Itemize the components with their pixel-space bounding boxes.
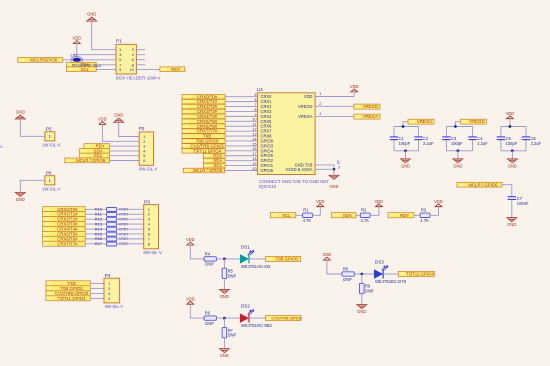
wire R8 to DS3: [354, 273, 374, 275]
wire to GND (C1 C2 VREGA decoupling): [405, 151, 407, 159]
net label RDY (U1 pin 17): [204, 153, 226, 158]
text R12 designator and value: [95, 216, 128, 221]
wire R11 to P3 pin 2: [117, 213, 144, 215]
wire DS2 to net label: [249, 317, 266, 319]
wire CRX0/T0# to R10: [85, 208, 106, 210]
resistor R8 DNP: [342, 272, 354, 276]
wire R14 to P3 pin 5: [117, 228, 144, 230]
junction DS3 node: [360, 273, 363, 276]
svg-text:VDD: VDD: [350, 84, 359, 89]
wire U1 GND TAB pin21: [315, 165, 334, 169]
wire R2 to VDD: [370, 207, 379, 215]
svg-text:100pF: 100pF: [399, 141, 411, 146]
svg-text:VREGA: VREGA: [363, 114, 378, 119]
junction top (C3 C4 VREGD decoupling): [454, 125, 457, 128]
wire U1 pin 17: [225, 155, 258, 157]
ground GND (C3 C4 VREGD decoupling): [453, 159, 463, 169]
wire node to R7: [223, 318, 225, 327]
text R14 designator and value: [95, 226, 128, 231]
svg-text:T3/T11 GPIO4: T3/T11 GPIO4: [406, 272, 435, 277]
net label TXB (to P4 pin 1): [46, 281, 90, 286]
svg-text:17: 17: [252, 152, 256, 156]
wire U1 pin 19: [225, 165, 258, 167]
svg-text:100pF: 100pF: [506, 141, 518, 146]
text C5 designator and value: [506, 136, 518, 146]
wire R5 to GND: [223, 279, 225, 290]
junction DS1 node: [223, 258, 226, 261]
svg-text:DS3: DS3: [375, 260, 384, 265]
net label RDY (to P2 pin3): [84, 144, 110, 149]
text R15 designator and value: [95, 231, 128, 236]
wire right cap top lead (C1 C2 VREGA decoupling): [418, 127, 420, 137]
wire SDA to P2 pin4: [110, 150, 140, 152]
wire bottom rail (C1 C2 VREGA decoupling): [394, 150, 419, 152]
text R5 designator and DNP: [228, 269, 237, 279]
wire VDD to R8: [327, 261, 342, 275]
wire U1 pin 15: [225, 145, 258, 147]
net label CRX1/T1# (to R11): [43, 212, 86, 217]
power VDD (P2): [98, 117, 107, 125]
capacitor C5 100pF: [497, 137, 505, 140]
svg-text:MCLR / GPIO6: MCLR / GPIO6: [468, 182, 498, 187]
IC U1 IQS7210: [258, 93, 316, 175]
wire VDD to P2 pin2: [102, 125, 139, 142]
svg-text:DNP: DNP: [228, 273, 237, 278]
wire U1 pin 11: [225, 125, 258, 127]
svg-text:RDY: RDY: [400, 213, 409, 218]
net label SDA (to P2 pin4): [80, 148, 110, 153]
net label SDA (pull-up R2): [332, 213, 357, 218]
text C1 designator and value: [399, 136, 411, 146]
svg-text:DNP: DNP: [343, 277, 352, 282]
svg-text:VSSD & VSSA: VSSD & VSSA: [285, 167, 312, 172]
svg-text:R8: R8: [343, 266, 349, 271]
wire node to R9: [361, 274, 363, 283]
capacitor C2 2.2uF: [414, 137, 422, 140]
ground GND (DS3): [357, 305, 367, 315]
resistor R3 4.7K: [420, 213, 430, 217]
wire CRX5/T5# to R15: [85, 233, 106, 235]
net label SCL (to P2 pin5): [80, 153, 110, 158]
net label CRX6/T6# (U1 pin 11): [182, 124, 225, 129]
wire R12 to P3 pin 3: [117, 218, 144, 220]
wire U1 VREGA pin4: [315, 115, 354, 117]
svg-text:2.2uF: 2.2uF: [531, 141, 542, 146]
net label CVS/TRB GPIO3 (U1 pin 15): [182, 143, 225, 148]
svg-text:GND: GND: [16, 109, 25, 114]
svg-text:18: 18: [252, 157, 256, 161]
resistor R2 4.7K: [360, 213, 370, 217]
net label CRX5/T5# (U1 pin 10): [182, 119, 225, 124]
wire to GND (U1): [333, 169, 335, 174]
svg-text:15: 15: [252, 142, 256, 146]
wire VREGD to rail: [455, 122, 460, 127]
svg-text:GND: GND: [220, 294, 229, 299]
net label MCLR / GPIO6 (U1 pin 20): [183, 168, 224, 173]
wire R7 to GND: [223, 338, 225, 349]
svg-text:VDD: VDD: [316, 199, 325, 204]
power VDD (U1 pin1): [350, 84, 359, 92]
pin names U1 left: [261, 94, 274, 173]
net label T0B GPIO0 (to P4 pin 2): [46, 286, 90, 291]
svg-text:4W-SIL-V: 4W-SIL-V: [105, 304, 124, 309]
wire to GND (C3 C4 VREGD decoupling): [457, 151, 459, 159]
wire U1 VDD pin1: [315, 96, 354, 98]
pin numbers P3: [148, 207, 151, 247]
svg-text:2.2uF: 2.2uF: [423, 141, 434, 146]
resistor R1 4.7K: [303, 213, 313, 217]
jumper LK1: [71, 53, 83, 64]
svg-text:WEJT61HC-I03: WEJT61HC-I03: [241, 264, 271, 269]
wire CRX6/T6# to R16: [85, 238, 106, 240]
ground GND (P6): [15, 192, 25, 202]
net label RDY (at P1): [160, 67, 185, 72]
power VDD (DS2): [186, 296, 195, 304]
net label CRX7/T7# (to R17): [43, 241, 86, 246]
wire CRX4/T4# to R14: [85, 228, 106, 230]
svg-text:6W-SIL-V: 6W-SIL-V: [139, 167, 158, 172]
net label MCLR / GPIO6 (C7): [457, 182, 502, 187]
ground GND (C1 C2 VREGA decoupling): [401, 159, 411, 169]
LED DS3: [374, 266, 388, 279]
svg-text:VDD: VDD: [434, 199, 443, 204]
text R2 designator and value: [361, 207, 370, 223]
svg-text:4.7K: 4.7K: [420, 218, 429, 223]
net label SCL (U1 pin 19): [204, 163, 226, 168]
pin numbers P4: [108, 281, 111, 301]
svg-text:WEJT61BC-D78: WEJT61BC-D78: [375, 279, 407, 284]
net label VREGA (U1 pin4): [354, 114, 380, 119]
net label SDA (to P1 pin7): [67, 62, 97, 67]
wire U1 pin 10: [225, 120, 258, 122]
svg-text:SCL: SCL: [81, 67, 90, 72]
power VDD (R1): [316, 199, 325, 207]
wire U1 pin 20: [225, 170, 258, 172]
power VDD (DS3): [323, 252, 332, 260]
wire R1 to VDD: [312, 207, 320, 215]
ground GND (P2): [114, 113, 124, 123]
wire left cap bottom lead (C5 C6 VDD decoupling): [500, 140, 502, 151]
svg-text:GND: GND: [507, 222, 516, 227]
svg-text:P1: P1: [116, 39, 122, 45]
wire RDY to P2 pin3: [110, 145, 140, 147]
svg-text:5: 5: [254, 93, 256, 97]
svg-text:CRX7/T7#: CRX7/T7#: [57, 241, 78, 246]
svg-text:100nF: 100nF: [517, 201, 529, 206]
wire SDA to R2: [356, 214, 360, 216]
net label CRX4/T4# (U1 pin 9): [182, 114, 225, 119]
capacitor C7 100nF: [508, 197, 516, 200]
net label SCL (pull-up R1): [270, 213, 295, 218]
svg-text:10: 10: [129, 67, 134, 72]
net label VREGA (C1 C2 VREGA decoupling): [408, 119, 434, 124]
text C2 designator and value: [423, 136, 434, 146]
svg-text:V: V: [0, 144, 3, 149]
net label CRX3/T3# (to R13): [43, 221, 86, 226]
wire P1 pin10 to RDY: [136, 68, 160, 70]
svg-text:T0B GPIO0: T0B GPIO0: [275, 256, 298, 261]
wire R17 to P3 pin 8: [117, 243, 144, 245]
svg-text:MCLR/GPIO6: MCLR/GPIO6: [30, 57, 57, 62]
wire R13 to P3 pin 4: [117, 223, 144, 225]
wire left cap top lead (C3 C4 VREGD decoupling): [445, 127, 447, 137]
text R9 designator and DNP: [365, 284, 374, 294]
text R1 designator and value: [303, 207, 312, 223]
wire P6 to GND: [20, 180, 45, 192]
wire left cap top lead (C1 C2 VREGA decoupling): [393, 127, 395, 137]
resistor R17 470R: [107, 242, 117, 246]
net label CRX4/T4# (to R14): [43, 226, 86, 231]
wire top rail (C1 C2 VREGA decoupling): [394, 126, 419, 128]
wire bottom rail (C3 C4 VREGD decoupling): [446, 150, 472, 152]
text R7 designator and DNP: [228, 328, 237, 338]
wire CRX1/T1# to R11: [85, 213, 106, 215]
svg-text:RDY: RDY: [171, 67, 180, 72]
svg-text:GND: GND: [16, 197, 25, 202]
wire MCLR/GPIO6 to P2 pin6: [110, 160, 140, 162]
junction bottom (C3 C4 VREGD decoupling): [457, 149, 460, 152]
text R17 designator and value: [95, 241, 128, 246]
resistor R6 DNP: [204, 316, 216, 320]
net label CRX1/T1# (U1 pin 6): [182, 99, 225, 104]
ground GND (U1): [329, 175, 339, 189]
wire R16 to P3 pin 7: [117, 238, 144, 240]
wire left cap top lead (C5 C6 VDD decoupling): [500, 127, 502, 137]
net label MCLR / GPIO6 (to P2 pin6): [65, 158, 110, 163]
svg-text:R1: R1: [303, 207, 309, 212]
svg-text:2: 2: [319, 102, 321, 106]
svg-text:7: 7: [254, 103, 256, 107]
net label SDA (U1 pin 18): [204, 158, 226, 163]
wire U1 pin 16: [225, 150, 258, 152]
wire R3 to VDD: [430, 207, 439, 215]
wire CVS/TRB GPIO3 to P4 pin 3: [90, 293, 104, 295]
wire R10 to P3 pin 1: [117, 208, 144, 210]
text C3 designator and value: [451, 136, 463, 146]
wire SDA to P1 pin7: [96, 64, 116, 66]
LED DS2: [240, 310, 254, 323]
net label T3/T11 GPIO4 (DS3): [398, 271, 434, 276]
svg-text:VREGA: VREGA: [417, 119, 432, 124]
wire R15 to P3 pin 6: [117, 233, 144, 235]
pin numbers P1: [119, 47, 135, 72]
net label CRX3/T3# (U1 pin 8): [182, 109, 225, 114]
svg-text:VDD: VDD: [186, 296, 195, 301]
svg-text:R17: R17: [95, 241, 103, 246]
svg-text:GND: GND: [220, 353, 229, 358]
wire GND to P2 pin1: [119, 122, 140, 136]
svg-text:1: 1: [319, 92, 321, 96]
wire right cap bottom lead (C5 C6 VDD decoupling): [525, 140, 527, 151]
wire U1 pin 5: [225, 96, 258, 98]
svg-text:VDD: VDD: [98, 117, 107, 122]
resistor R16 470R: [107, 237, 117, 241]
svg-text:GND: GND: [453, 164, 462, 169]
resistor R14 470R: [107, 227, 117, 231]
svg-text:SCL: SCL: [282, 213, 291, 218]
net label CRX0/T0# (to R10): [43, 207, 86, 212]
wire U1 pin 18: [225, 160, 258, 162]
svg-text:100pF: 100pF: [451, 141, 463, 146]
wire MCLR/GPIO6 to C7: [502, 185, 512, 197]
text C6 designator and value: [531, 136, 542, 146]
svg-text:VREGD: VREGD: [363, 104, 378, 109]
power VDD (DS1): [186, 237, 195, 245]
svg-text:VREGD: VREGD: [469, 119, 484, 124]
svg-text:P6: P6: [46, 171, 52, 176]
svg-text:VDD: VDD: [186, 237, 195, 242]
wire node to R5: [223, 259, 225, 268]
text C7 designator and value: [517, 196, 529, 206]
svg-text:16: 16: [252, 147, 256, 151]
svg-text:DNP: DNP: [228, 333, 237, 338]
wire DS3 to net label: [383, 273, 398, 275]
wire R6 to DS2: [216, 317, 240, 319]
wire DS1 to net label: [249, 258, 266, 260]
capacitor C6 2.2uF: [522, 137, 530, 140]
svg-text:VDD: VDD: [375, 199, 384, 204]
svg-text:8W-SIL-V: 8W-SIL-V: [143, 250, 162, 255]
wire left cap bottom lead (C1 C2 VREGA decoupling): [393, 140, 395, 151]
wire U1 VREGD pin2: [315, 105, 354, 107]
junction top (C1 C2 VREGA decoupling): [402, 125, 405, 128]
wire top rail (C5 C6 VDD decoupling): [501, 126, 526, 128]
svg-text:MCLR / GPIO6: MCLR / GPIO6: [193, 168, 223, 173]
wire right cap top lead (C3 C4 VREGD decoupling): [472, 127, 474, 137]
connector P1 BOX HEADER-10W-V: [116, 44, 136, 74]
pin names U1 right: [285, 94, 312, 172]
svg-text:VREGD: VREGD: [298, 104, 313, 109]
wire bottom rail (C5 C6 VDD decoupling): [501, 150, 526, 152]
wire right cap bottom lead (C3 C4 VREGD decoupling): [472, 140, 474, 151]
resistor R15 470R: [107, 232, 117, 236]
net label VREGD (U1 pin2): [354, 104, 380, 109]
wire R4 to DS1: [216, 258, 240, 260]
connector P6 1W-SIL-V: [45, 176, 55, 185]
wire VDD to rail: [509, 119, 511, 126]
svg-text:8: 8: [254, 108, 256, 112]
svg-text:4.7K: 4.7K: [303, 218, 312, 223]
wire P1 pin3 row: [74, 54, 116, 56]
svg-text:3: 3: [338, 165, 340, 169]
svg-text:1W-SIL-V: 1W-SIL-V: [42, 186, 61, 191]
junction bottom (C5 C6 VDD decoupling): [511, 149, 514, 152]
capacitor C3 100pF: [442, 137, 450, 140]
power VDD (R3): [434, 199, 443, 207]
text R8 designator and DNP: [343, 266, 352, 281]
svg-text:10: 10: [252, 118, 256, 122]
svg-text:DNP: DNP: [205, 321, 214, 326]
svg-text:GND: GND: [508, 164, 517, 169]
resistor R4 DNP: [204, 257, 216, 261]
wire MCLR/GPIO6 to P1 pin5: [63, 59, 116, 61]
text R16 designator and value: [95, 236, 128, 241]
resistor R7 DNP: [222, 327, 227, 337]
svg-text:4.7K: 4.7K: [361, 218, 370, 223]
wire U1 pin 12: [225, 130, 258, 132]
svg-text:R2: R2: [361, 207, 367, 212]
svg-text:GND: GND: [401, 164, 410, 169]
svg-text:1W-SIL-V: 1W-SIL-V: [42, 142, 61, 147]
svg-text:VDD: VDD: [323, 252, 332, 257]
wire VREGA to rail: [403, 122, 408, 127]
resistor R13 470R: [107, 222, 117, 226]
net label CRX6/T6# (to R16): [43, 236, 86, 241]
svg-text:21: 21: [336, 160, 340, 164]
svg-text:P5: P5: [46, 127, 52, 132]
wire TXB to P4 pin 1: [90, 282, 104, 284]
text R10 designator and value: [95, 207, 128, 212]
svg-text:IQS7210: IQS7210: [259, 184, 277, 189]
ground GND (P5): [15, 109, 25, 119]
svg-text:4: 4: [319, 112, 321, 116]
net label CRX0/T0# (U1 pin 5): [182, 94, 225, 99]
connector P2 6W-SIL-V: [139, 132, 153, 165]
svg-text:VDD: VDD: [506, 111, 515, 116]
connector P4 4W-SIL-V: [104, 278, 120, 303]
power VDD (C5 C6 VDD decoupling): [506, 111, 515, 119]
wire CRX7/T7# to R17: [85, 243, 106, 245]
net label CRX5/T5# (to R15): [43, 231, 86, 236]
junction U1 ground: [333, 168, 336, 171]
wire right cap top lead (C5 C6 VDD decoupling): [525, 127, 527, 137]
net label TXB (U1 pin 13): [182, 134, 225, 139]
wire U1 pin 7: [225, 106, 258, 108]
pin numbers P2: [143, 134, 146, 163]
svg-text:20: 20: [252, 167, 256, 171]
resistor R12 470R: [107, 217, 117, 221]
wire T3/T11 GPIO4 to P4 pin 4: [90, 297, 104, 299]
svg-text:13: 13: [252, 132, 256, 136]
svg-text:DS1: DS1: [241, 245, 250, 250]
wire VDD to R6: [190, 305, 204, 319]
wire SCL to R1: [296, 214, 303, 216]
junction bottom (C1 C2 VREGA decoupling): [404, 149, 407, 152]
wire RDY to R3: [414, 214, 420, 216]
net label MCLR/GPIO6 (to P1): [18, 57, 63, 62]
wire top rail (C3 C4 VREGD decoupling): [446, 126, 472, 128]
net label T0B GPIO0 (DS1): [266, 256, 301, 261]
svg-text:9: 9: [254, 113, 256, 117]
svg-text:SDA: SDA: [343, 213, 352, 218]
LED DS1: [240, 251, 254, 264]
svg-text:R4: R4: [205, 251, 211, 256]
svg-text:BOX HEADER-10W-V: BOX HEADER-10W-V: [116, 75, 161, 80]
ground GND (C7): [507, 218, 517, 228]
capacitor C4 2.2uF: [468, 137, 476, 140]
text C4 designator and value: [477, 136, 488, 146]
wire left cap bottom lead (C3 C4 VREGD decoupling): [445, 140, 447, 151]
resistor R11 470R: [107, 212, 117, 216]
ground GND (DS1): [219, 289, 229, 299]
resistor R10 470R: [107, 208, 117, 212]
wire SCL to P1 pin9: [96, 68, 116, 70]
wire U1 pin 6: [225, 101, 258, 103]
svg-text:GND: GND: [114, 113, 123, 118]
svg-text:GND: GND: [357, 309, 366, 314]
svg-text:GND: GND: [87, 12, 96, 17]
svg-text:GPIO6: GPIO6: [261, 168, 274, 173]
net label CRX2/T2# (U1 pin 7): [182, 104, 225, 109]
resistor R5 DNP: [222, 268, 227, 278]
power VDD (R2): [375, 199, 384, 207]
resistor R9 DNP: [360, 283, 365, 293]
ground GND (top, P1 pin1): [87, 12, 97, 22]
svg-text:R6: R6: [205, 311, 211, 316]
net label RDY (pull-up R3): [388, 213, 414, 218]
junction DS2 node: [223, 317, 226, 320]
net label T3/T11 GPIO4 (to P4 pin 4): [46, 296, 90, 301]
